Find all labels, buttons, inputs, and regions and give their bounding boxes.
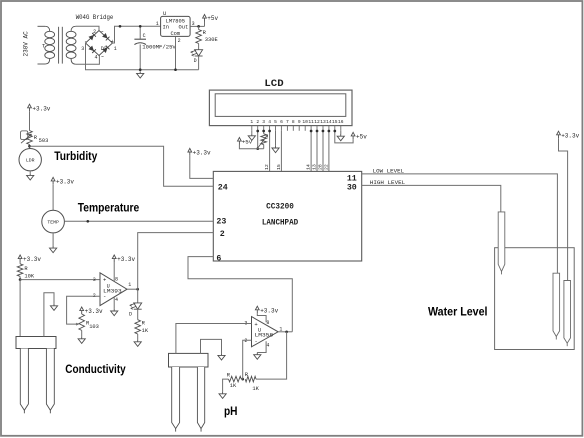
svg-text:14: 14 — [306, 164, 312, 170]
svg-text:23: 23 — [216, 218, 226, 227]
svg-text:13: 13 — [312, 164, 318, 170]
svg-text:4: 4 — [266, 342, 269, 348]
svg-text:11: 11 — [308, 119, 314, 125]
junction — [174, 68, 177, 71]
pH probe prong B — [197, 367, 204, 432]
wire bridge- to ground rail — [86, 43, 199, 70]
svg-text:Water Level: Water Level — [428, 307, 488, 319]
ground — [248, 134, 255, 141]
junction — [268, 130, 271, 133]
svg-text:1000MF/25V: 1000MF/25V — [142, 44, 176, 51]
junction — [310, 130, 313, 133]
svg-text:24: 24 — [218, 183, 228, 192]
svg-text:+3.3v: +3.3v — [32, 105, 50, 112]
svg-text:D: D — [194, 58, 197, 64]
ground — [137, 71, 144, 78]
power +3.3v — [255, 306, 278, 314]
wire TEMP to CC3200 pin23 — [64, 220, 213, 222]
potentiometer RV1 — [258, 134, 267, 149]
wire +5v stem — [204, 22, 206, 27]
junction — [256, 130, 259, 133]
svg-text:2: 2 — [256, 119, 259, 125]
wire LCD pin13 to CC3200 — [322, 131, 324, 172]
wire +3.3v to R503 — [29, 111, 31, 130]
svg-text:+3.3v: +3.3v — [117, 256, 135, 263]
label Water Level — [428, 307, 488, 319]
wire LCD pin11 to CC3200 — [310, 131, 312, 172]
wire LM358 pin8 +3.3v — [257, 313, 266, 322]
wire R503 to LDR — [29, 145, 31, 149]
svg-text:1K: 1K — [230, 383, 237, 389]
svg-text:503: 503 — [39, 138, 49, 144]
svg-text:LCD: LCD — [264, 78, 283, 90]
svg-text:9: 9 — [298, 119, 301, 125]
junction — [256, 147, 259, 150]
wire Out to +5v node — [190, 25, 204, 27]
svg-text:230V AC: 230V AC — [23, 31, 30, 57]
svg-text:5: 5 — [274, 119, 277, 125]
svg-text:4: 4 — [115, 297, 118, 303]
wire probe to LM358 pin3 — [176, 324, 252, 354]
op-amp U3 LM393 — [93, 273, 132, 306]
pin label 22 — [323, 164, 329, 170]
CC3200 LaunchPad U2 — [213, 171, 361, 263]
wire R10K to probe — [19, 280, 21, 337]
LCD pin numbers 1-16 — [250, 119, 343, 125]
power +3.3v — [112, 255, 135, 263]
wire LCD pin12 to CC3200 — [316, 131, 318, 172]
ground — [337, 134, 344, 141]
svg-text:2: 2 — [178, 38, 181, 44]
pin label 13 — [312, 164, 318, 170]
ground — [254, 353, 261, 360]
wire LM393 out to LED — [137, 289, 139, 303]
pH probe prong A — [172, 367, 180, 432]
ground — [27, 173, 34, 180]
svg-text:+5v: +5v — [356, 133, 367, 140]
svg-text:W04G Bridge: W04G Bridge — [76, 14, 114, 21]
LCD module — [209, 90, 352, 126]
junction — [333, 130, 336, 133]
wire bridge+ to regulator rail — [113, 26, 161, 43]
power +5v — [351, 132, 367, 140]
LCD pin stubs — [252, 126, 341, 131]
svg-text:Turbidity: Turbidity — [54, 151, 98, 163]
potentiometer R 103 — [79, 314, 99, 337]
svg-text:22: 22 — [323, 164, 329, 170]
wire probe to ground — [44, 293, 54, 337]
junction — [119, 25, 122, 28]
svg-text:Temperature: Temperature — [78, 203, 140, 215]
ground — [50, 246, 57, 253]
power +3.3v — [18, 255, 41, 263]
wire LCD pin4 to CC3200 — [269, 131, 271, 172]
regulator U1 LM7805 — [156, 11, 195, 44]
water probe HIGH — [498, 212, 505, 275]
wire secondary-top to bridge — [76, 26, 99, 30]
junction — [328, 130, 331, 133]
svg-text:12: 12 — [314, 119, 320, 125]
svg-text:LM358: LM358 — [255, 332, 274, 338]
svg-text:pH: pH — [224, 406, 238, 418]
water probe LOW — [553, 273, 560, 339]
resistor R 1K — [135, 309, 149, 339]
svg-text:+3.3v: +3.3v — [23, 256, 41, 263]
svg-text:4: 4 — [268, 119, 271, 125]
junction — [139, 25, 142, 28]
resistor R 330E — [196, 26, 218, 49]
wire LCD pin5 — [275, 131, 277, 146]
label Turbidity — [54, 151, 98, 163]
svg-text:C: C — [143, 33, 146, 39]
svg-text:10K: 10K — [24, 274, 34, 280]
wire Com pin2 to ground rail — [175, 36, 177, 69]
svg-text:12: 12 — [264, 164, 270, 170]
svg-text:+: + — [111, 39, 114, 45]
label Temperature — [78, 203, 140, 215]
svg-text:+3.3v: +3.3v — [561, 132, 579, 139]
svg-text:1: 1 — [114, 46, 117, 52]
wire LCD pin1 — [251, 131, 253, 134]
wire +3.3v to probe — [559, 138, 568, 280]
wire LCD pin3 — [263, 131, 265, 134]
wire turbidity to CC3200 pin24 — [30, 146, 214, 186]
label 230V AC — [23, 31, 30, 57]
power +3.3v — [80, 307, 103, 315]
wire LCD pin16 — [340, 131, 342, 134]
power +3.3v — [51, 177, 74, 185]
op-amp U4 LM358 — [244, 317, 282, 349]
bridge rectifier D? — [81, 29, 117, 61]
svg-text:1K: 1K — [252, 386, 259, 392]
ground — [50, 304, 57, 311]
svg-text:LOW LEVEL: LOW LEVEL — [373, 167, 405, 174]
svg-text:CC3200: CC3200 — [266, 202, 294, 211]
junction — [241, 378, 244, 381]
svg-text:6: 6 — [280, 119, 283, 125]
resistor R 1K feedback — [245, 372, 260, 392]
preset resistor R 503 — [21, 131, 49, 145]
svg-text:7: 7 — [286, 119, 289, 125]
junction — [316, 130, 319, 133]
svg-text:15: 15 — [276, 164, 282, 170]
svg-text:1: 1 — [156, 21, 159, 27]
pin label 28 — [317, 164, 323, 170]
svg-text:8: 8 — [266, 320, 269, 326]
svg-text:10: 10 — [302, 119, 308, 125]
ground — [272, 146, 279, 153]
wire LM358 pin2 — [243, 340, 252, 379]
pin label 12 — [264, 164, 270, 170]
transformer T1 — [38, 26, 77, 64]
svg-text:1: 1 — [250, 119, 253, 125]
svg-text:11: 11 — [347, 174, 357, 183]
wire LCD pin14 to CC3200 — [328, 131, 330, 172]
wire LOW LEVEL — [362, 174, 558, 273]
svg-text:2: 2 — [220, 230, 225, 239]
wire LM358 pin4 gnd — [257, 341, 266, 352]
ground — [111, 309, 118, 316]
svg-text:30: 30 — [347, 184, 357, 193]
svg-text:1: 1 — [128, 282, 131, 288]
wire HIGH LEVEL — [362, 185, 501, 212]
wire LCD pin15 to +5v — [335, 131, 353, 143]
svg-text:Com: Com — [170, 31, 180, 37]
ground — [78, 337, 85, 344]
LED D2 — [129, 303, 142, 317]
svg-text:28: 28 — [317, 164, 323, 170]
wire LM393 pin2 to pot — [67, 296, 100, 325]
ground — [218, 353, 225, 360]
LED D1 — [191, 50, 203, 70]
power +5v — [238, 138, 253, 146]
label Conductivity — [65, 364, 126, 376]
svg-text:16: 16 — [338, 119, 344, 125]
svg-text:3: 3 — [81, 46, 84, 52]
label W04G Bridge — [76, 14, 114, 21]
junction — [28, 145, 31, 148]
svg-text:14: 14 — [326, 119, 332, 125]
wire TEMP to ground — [52, 233, 54, 246]
junction — [136, 288, 139, 291]
svg-text:6: 6 — [216, 254, 221, 263]
resistor R 10K — [17, 262, 35, 280]
wire LM393 output node — [127, 288, 138, 290]
svg-text:+3.3v: +3.3v — [56, 179, 74, 186]
svg-text:LANCHPAD: LANCHPAD — [262, 219, 298, 228]
power +3.3v — [557, 131, 580, 139]
wire R10K to LM393 pin3 — [20, 279, 100, 281]
wire LM393 pin8 +3.3v — [113, 262, 115, 281]
svg-text:3: 3 — [93, 277, 96, 283]
wire junction to R — [241, 378, 242, 380]
wire LM358 output — [278, 331, 292, 333]
svg-text:D?: D? — [101, 46, 107, 52]
svg-text:2: 2 — [244, 338, 247, 344]
wire LCD pin2 to +5v — [257, 131, 259, 149]
junction — [139, 68, 142, 71]
resistor R 1K to gnd — [227, 373, 242, 390]
label LOW LEVEL — [373, 167, 405, 174]
svg-text:+3.3v: +3.3v — [260, 307, 278, 314]
svg-text:15: 15 — [332, 119, 338, 125]
svg-text:+3.3v: +3.3v — [193, 150, 211, 157]
conductivity probe prong A — [20, 349, 28, 414]
label 1000MF/25V — [142, 44, 176, 51]
pin label 15 — [276, 164, 282, 170]
svg-text:HIGH LEVEL: HIGH LEVEL — [370, 179, 406, 186]
wire feedback down — [256, 332, 287, 379]
power +3.3v — [188, 148, 211, 156]
svg-text:-: - — [254, 338, 257, 345]
wire +5v rail — [239, 145, 263, 149]
wire +3.3v to CC3200 — [190, 155, 214, 178]
LDR sensor — [19, 149, 41, 171]
conductivity probe body — [16, 337, 56, 349]
junction — [285, 330, 288, 333]
capacitor C1 — [134, 26, 146, 69]
wire LM393 out to CC3200 pin2 — [138, 233, 214, 290]
ground — [219, 392, 226, 399]
label HIGH LEVEL — [370, 179, 406, 186]
svg-text:+5v: +5v — [207, 15, 218, 22]
junction — [262, 130, 265, 133]
wire LCD pin6 to CC3200 — [280, 131, 282, 172]
power +3.3v — [28, 104, 51, 112]
svg-text:+5v: +5v — [242, 139, 253, 146]
wire secondary-bottom to bridge — [76, 56, 100, 65]
junction — [197, 25, 200, 28]
water probe COM — [564, 281, 571, 347]
pin label 14 — [306, 164, 312, 170]
svg-text:TEMP: TEMP — [47, 220, 59, 226]
svg-text:Conductivity: Conductivity — [65, 364, 126, 376]
wire +3.3v to TEMP — [52, 184, 54, 210]
svg-text:103: 103 — [89, 324, 99, 330]
svg-text:LDR: LDR — [26, 158, 35, 164]
svg-text:8: 8 — [292, 119, 295, 125]
power +5v — [203, 15, 219, 23]
svg-text:1K: 1K — [142, 328, 149, 334]
wire LDR to ground — [29, 171, 31, 173]
svg-text:4: 4 — [94, 55, 97, 61]
svg-text:330E: 330E — [205, 37, 218, 43]
label pH — [224, 406, 238, 418]
junction — [19, 278, 22, 281]
junction — [86, 220, 89, 223]
tank — [495, 248, 575, 350]
svg-text:In: In — [163, 25, 169, 31]
svg-text:D: D — [129, 311, 132, 317]
svg-text:3: 3 — [262, 119, 265, 125]
svg-text:8: 8 — [115, 276, 118, 282]
svg-text:2: 2 — [93, 29, 96, 35]
pH probe body — [169, 353, 209, 367]
svg-text:+3.3v: +3.3v — [85, 308, 103, 315]
TEMP sensor — [42, 210, 65, 233]
svg-text:~: ~ — [101, 30, 104, 36]
svg-text:13: 13 — [320, 119, 326, 125]
label LCD — [264, 78, 283, 90]
wire R to ground — [223, 379, 229, 392]
junction — [322, 130, 325, 133]
svg-text:LM7805: LM7805 — [166, 18, 185, 24]
wire LM393 pin4 gnd — [113, 297, 115, 309]
svg-text:~: ~ — [101, 55, 104, 61]
svg-text:Out: Out — [178, 25, 188, 31]
conductivity probe prong B — [46, 349, 54, 414]
svg-text:LM393: LM393 — [103, 289, 122, 295]
wire CC3200 pin6 to LM358 out — [188, 257, 292, 332]
ground — [134, 340, 141, 347]
svg-text:U: U — [163, 11, 166, 17]
wire probe to ground — [201, 339, 222, 353]
